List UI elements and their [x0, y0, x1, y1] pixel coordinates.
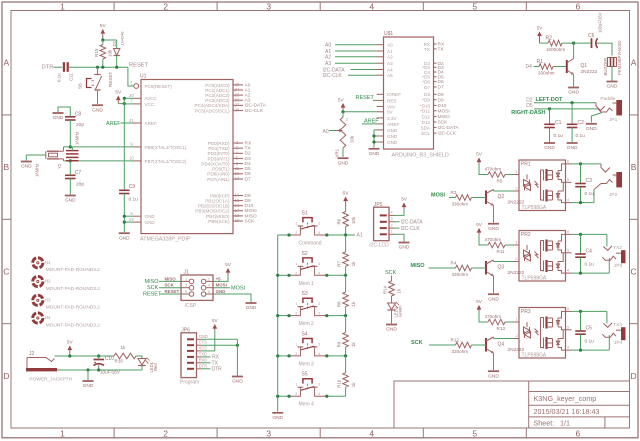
- svg-text:1: 1: [60, 428, 65, 438]
- supply 5V at JP5: [402, 203, 407, 208]
- ground at J1: [246, 302, 257, 304]
- ground below C7: [65, 195, 76, 197]
- svg-text:I2C-CLK: I2C-CLK: [245, 108, 264, 114]
- svg-text:R16: R16: [115, 359, 124, 364]
- ground below button rail: [272, 412, 283, 414]
- svg-text:330ohm: 330ohm: [452, 272, 469, 277]
- header JP5 I2C-LCD: [374, 207, 389, 241]
- svg-text:20: 20: [129, 93, 134, 98]
- svg-text:22: 22: [129, 217, 134, 222]
- wire LEFT-DOT to paddle tip: [534, 102, 596, 104]
- svg-text:D6: D6: [438, 79, 444, 85]
- svg-text:R9: R9: [337, 341, 342, 347]
- transistor Q1 2N2222: [566, 60, 568, 73]
- svg-text:1: 1: [295, 342, 297, 346]
- svg-text:H2: H2: [45, 279, 51, 284]
- IC U$1 ARDUINO_R3_SHIELD box: [384, 37, 434, 149]
- svg-text:6: 6: [567, 230, 569, 234]
- U1 right pins with net labels: [233, 84, 243, 86]
- svg-text:330ohm: 330ohm: [538, 71, 555, 76]
- svg-text:B: B: [3, 162, 9, 172]
- svg-text:JP2: JP2: [609, 192, 618, 198]
- buzzer PKM13EPYH4000: [608, 58, 617, 67]
- svg-text:RES: RES: [387, 98, 396, 103]
- wire U$1 GND pins to ground: [374, 129, 377, 131]
- svg-text:R5: R5: [497, 179, 503, 184]
- svg-text:0.1u: 0.1u: [585, 261, 595, 267]
- svg-text:MOUNT-PAD-ROUND3.2: MOUNT-PAD-ROUND3.2: [46, 286, 101, 292]
- svg-text:A5: A5: [387, 73, 393, 78]
- header JP6 Program: [181, 333, 197, 378]
- svg-text:C2: C2: [578, 120, 585, 126]
- svg-text:A: A: [631, 58, 637, 68]
- svg-text:0.1u: 0.1u: [585, 191, 595, 197]
- svg-text:D7: D7: [438, 85, 444, 91]
- svg-text:*D6: *D6: [422, 80, 430, 85]
- svg-text:GND: GND: [488, 226, 499, 232]
- capacitor C6 100uF/16V: [591, 38, 593, 48]
- svg-text:1: 1: [295, 262, 297, 266]
- svg-text:28: 28: [235, 108, 240, 113]
- svg-text:1: 1: [60, 1, 65, 11]
- svg-text:10: 10: [129, 156, 134, 161]
- ground below VR1: [338, 157, 349, 159]
- supply 5V to U$1 and VR1: [341, 103, 346, 108]
- svg-text:I2C-DATA: I2C-DATA: [245, 103, 267, 109]
- svg-text:SCK: SCK: [438, 120, 449, 126]
- svg-text:PB7(XTAL2/TOSC2): PB7(XTAL2/TOSC2): [145, 159, 187, 164]
- svg-text:TX: TX: [438, 47, 445, 53]
- svg-text:Mem 1: Mem 1: [299, 281, 315, 287]
- svg-text:3: 3: [390, 217, 392, 221]
- svg-text:I2C-DATA: I2C-DATA: [401, 220, 424, 226]
- svg-text:GND: GND: [399, 245, 410, 251]
- header J1 ICSP: [181, 275, 213, 300]
- svg-text:IOREF: IOREF: [387, 92, 401, 97]
- svg-text:GND: GND: [119, 235, 130, 241]
- svg-text:ATMEGA328P_PDIP: ATMEGA328P_PDIP: [140, 236, 191, 242]
- svg-text:RESET: RESET: [108, 71, 113, 87]
- svg-text:Sheet:: Sheet:: [534, 418, 555, 427]
- svg-text:GND: GND: [216, 289, 226, 294]
- svg-text:J2: J2: [29, 351, 35, 357]
- svg-text:4: 4: [369, 1, 374, 11]
- svg-text:10k: 10k: [108, 49, 113, 57]
- svg-text:AREF: AREF: [106, 121, 121, 127]
- svg-text:0.1u: 0.1u: [585, 338, 595, 344]
- wire R2 to C6 and Q1 collector: [562, 42, 591, 44]
- svg-text:GND: GND: [567, 145, 578, 151]
- svg-text:4: 4: [318, 352, 320, 356]
- svg-text:TX: TX: [245, 146, 252, 152]
- wire 5V rail to AVCC VCC pins: [124, 97, 133, 99]
- svg-text:20p: 20p: [76, 182, 84, 188]
- svg-text:TLP598GA: TLP598GA: [522, 353, 547, 359]
- svg-text:RESET: RESET: [143, 292, 162, 298]
- svg-text:Mem 4: Mem 4: [299, 402, 315, 408]
- wires U$1 analog inputs A0-A3: [335, 44, 377, 46]
- svg-text:4: 4: [567, 346, 569, 350]
- svg-text:A0: A0: [323, 129, 329, 135]
- svg-text:1k: 1k: [351, 341, 356, 346]
- svg-text:RESET: RESET: [356, 95, 375, 101]
- svg-text:GND: GND: [386, 327, 397, 333]
- svg-text:R3: R3: [451, 190, 457, 195]
- svg-text:5V: 5V: [212, 318, 219, 324]
- svg-text:2N2222: 2N2222: [581, 69, 598, 75]
- switch S6 (reset button): [97, 67, 99, 74]
- svg-text:0.1u: 0.1u: [129, 197, 139, 203]
- svg-text:D5: D5: [526, 103, 533, 109]
- wire S3 to rails: [278, 315, 289, 317]
- svg-text:D4: D4: [245, 161, 251, 167]
- svg-text:SDA: SDA: [421, 125, 431, 130]
- svg-text:1: 1: [295, 383, 297, 387]
- svg-text:VIN: VIN: [387, 104, 395, 109]
- svg-text:5: 5: [567, 325, 569, 329]
- svg-text:R14: R14: [383, 285, 388, 294]
- svg-text:2: 2: [208, 277, 210, 281]
- capacitor C5 0.1u: [580, 311, 582, 331]
- svg-text:Q4: Q4: [498, 342, 505, 348]
- svg-text:C4: C4: [586, 249, 593, 255]
- svg-text:PB6(XTAL1/TOSC1): PB6(XTAL1/TOSC1): [145, 145, 187, 150]
- ground left of Y2: [21, 161, 32, 163]
- svg-text:RXD: RXD: [199, 357, 208, 362]
- svg-text:JP3: JP3: [614, 263, 623, 269]
- wire S1 to rails: [278, 234, 289, 236]
- svg-text:1k: 1k: [351, 301, 356, 306]
- supply 5V at power jack: [68, 346, 73, 351]
- svg-text:R4: R4: [451, 261, 457, 266]
- resistor R16 1k: [114, 353, 136, 359]
- svg-text:A2: A2: [387, 55, 393, 60]
- svg-text:D7: D7: [245, 176, 251, 182]
- svg-text:1000ohm: 1000ohm: [546, 47, 565, 52]
- svg-text:I2C-CLK: I2C-CLK: [401, 226, 421, 232]
- svg-text:MISO: MISO: [245, 213, 258, 219]
- svg-text:0.1u: 0.1u: [576, 133, 586, 139]
- svg-text:C6: C6: [588, 33, 595, 39]
- svg-text:I2C-LCD: I2C-LCD: [369, 243, 389, 249]
- svg-text:2: 2: [390, 223, 392, 227]
- svg-text:470ohm: 470ohm: [485, 237, 502, 242]
- svg-text:A3: A3: [387, 61, 393, 66]
- svg-text:20p: 20p: [76, 122, 84, 128]
- svg-text:D: D: [631, 371, 637, 381]
- wire U$1 A5 to I2C-CLK: [348, 74, 377, 76]
- svg-text:S5: S5: [302, 372, 308, 378]
- svg-text:1k: 1k: [351, 382, 356, 387]
- svg-text:*D10: *D10: [420, 103, 431, 108]
- wire PR2 output top to TX jack: [572, 233, 607, 235]
- U$1 right pins with net labels: [434, 43, 437, 45]
- svg-text:GND: GND: [53, 115, 64, 121]
- supply 5V buzzer: [537, 32, 542, 37]
- svg-text:JP1: JP1: [609, 117, 618, 123]
- diode D1 1N4148: [116, 40, 118, 48]
- capacitor C9 0.1u: [119, 189, 130, 191]
- svg-text:2N2222: 2N2222: [508, 347, 525, 353]
- svg-text:SCK: SCK: [385, 270, 397, 276]
- svg-text:1N4148: 1N4148: [119, 31, 124, 46]
- svg-text:GND: GND: [21, 164, 32, 170]
- svg-text:A1: A1: [245, 87, 251, 93]
- svg-text:1k: 1k: [121, 345, 127, 350]
- svg-text:5V: 5V: [343, 191, 350, 197]
- svg-text:PR2: PR2: [521, 232, 531, 238]
- svg-text:GND: GND: [387, 128, 398, 133]
- svg-text:SCL: SCL: [421, 131, 430, 136]
- svg-text:JP6: JP6: [181, 328, 190, 334]
- supply 5V (reset pullup): [101, 29, 106, 34]
- svg-text:3: 3: [318, 342, 320, 346]
- svg-text:+5: +5: [216, 276, 222, 281]
- svg-text:MOSI: MOSI: [431, 192, 446, 198]
- svg-text:5V: 5V: [225, 262, 232, 268]
- svg-text:J1: J1: [184, 270, 190, 276]
- svg-text:S6: S6: [77, 83, 82, 89]
- svg-text:1: 1: [515, 241, 517, 245]
- mount pad H4: [33, 313, 43, 323]
- wire C11 to RESET node: [69, 66, 128, 68]
- svg-text:A2: A2: [325, 55, 331, 61]
- ground below buzzer: [607, 81, 618, 83]
- svg-text:A4: A4: [387, 67, 393, 72]
- svg-text:Y2: Y2: [57, 163, 62, 169]
- svg-text:Red: Red: [153, 363, 158, 371]
- svg-text:5V: 5V: [115, 90, 122, 96]
- svg-text:S2: S2: [302, 251, 308, 257]
- mount pad H2: [33, 276, 43, 286]
- svg-text:MOUNT-PAD-ROUND3.2: MOUNT-PAD-ROUND3.2: [46, 322, 101, 328]
- svg-text:2: 2: [515, 334, 517, 338]
- svg-text:PD7(AIN1): PD7(AIN1): [207, 177, 230, 182]
- svg-text:MOUNT-PAD-ROUND3.2: MOUNT-PAD-ROUND3.2: [46, 267, 101, 273]
- ground below S6: [92, 104, 103, 106]
- wire RIGHT-DASH to paddle ring: [534, 108, 598, 110]
- svg-text:GND: GND: [488, 296, 499, 302]
- svg-text:5V: 5V: [100, 23, 107, 29]
- wire Y2 case to ground: [26, 154, 46, 156]
- svg-text:2: 2: [515, 187, 517, 191]
- svg-text:5V: 5V: [476, 152, 483, 158]
- svg-text:TX: TX: [424, 47, 430, 52]
- svg-text:D6: D6: [245, 171, 251, 177]
- svg-text:2: 2: [163, 428, 168, 438]
- svg-text:3: 3: [318, 302, 320, 306]
- svg-text:C11: C11: [69, 73, 74, 81]
- svg-text:4: 4: [318, 271, 320, 275]
- svg-text:3: 3: [185, 284, 187, 288]
- svg-text:GND: GND: [232, 379, 243, 385]
- wire DTR to C11: [54, 66, 63, 68]
- svg-text:5: 5: [472, 428, 477, 438]
- wire 5V to R15/D1 tops: [103, 39, 117, 41]
- svg-text:AREF: AREF: [145, 121, 157, 126]
- resistor R8 1k: [345, 276, 347, 293]
- svg-text:5: 5: [472, 1, 477, 11]
- title block: [394, 381, 630, 428]
- svg-text:DTR: DTR: [199, 363, 207, 368]
- LED1 red: [136, 356, 142, 359]
- svg-text:VCC: VCC: [145, 102, 155, 107]
- svg-text:H1: H1: [45, 260, 51, 265]
- svg-text:21: 21: [129, 118, 134, 123]
- svg-text:DTR: DTR: [42, 64, 54, 70]
- ground below Q4: [488, 370, 499, 372]
- wire paddle sleeve to ground: [591, 113, 602, 123]
- resistor R5 470ohm: [479, 165, 488, 175]
- resistor R14 1k: [391, 276, 393, 282]
- svg-text:A0: A0: [325, 43, 331, 49]
- svg-text:13: 13: [235, 176, 240, 181]
- wire C6 to buzzer: [596, 43, 612, 55]
- VR1 wiper arrow and A0 wire: [329, 130, 336, 132]
- svg-text:PC5(ADC5/SCL): PC5(ADC5/SCL): [195, 108, 230, 113]
- svg-text:2: 2: [295, 271, 297, 275]
- svg-text:4: 4: [318, 392, 320, 396]
- svg-text:D2: D2: [245, 151, 251, 157]
- svg-text:2: 2: [515, 257, 517, 261]
- svg-text:A3: A3: [325, 61, 331, 67]
- svg-text:GND: GND: [387, 134, 398, 139]
- svg-text:D9: D9: [438, 97, 444, 103]
- svg-text:5V: 5V: [67, 340, 74, 346]
- svg-text:JP4: JP4: [614, 340, 623, 346]
- svg-text:U$1: U$1: [384, 31, 393, 37]
- svg-text:5V: 5V: [338, 97, 345, 103]
- svg-text:C9: C9: [129, 184, 136, 190]
- svg-text:RIGHT-DASH: RIGHT-DASH: [511, 110, 545, 116]
- wire JP6 VCC to 5V: [201, 350, 215, 352]
- svg-text:5: 5: [567, 178, 569, 182]
- svg-text:6: 6: [567, 307, 569, 311]
- svg-text:SCK: SCK: [165, 283, 175, 288]
- resistor R11 470ohm: [479, 235, 488, 245]
- svg-text:D1: D1: [112, 40, 117, 46]
- net label A1: [346, 234, 355, 236]
- svg-text:R11: R11: [497, 249, 506, 254]
- svg-text:1: 1: [295, 302, 297, 306]
- supply 5V (PR3): [477, 305, 482, 310]
- svg-text:PC6(RESET): PC6(RESET): [145, 84, 173, 89]
- wire PR2 output bottom: [572, 272, 610, 274]
- net label DTR at JP6: [201, 368, 211, 370]
- transistor Q2 2N2222: [485, 191, 487, 205]
- svg-text:MOSI: MOSI: [231, 285, 246, 291]
- svg-text:DTR: DTR: [212, 366, 223, 372]
- svg-text:1k: 1k: [351, 261, 356, 266]
- svg-text:A0: A0: [245, 82, 251, 88]
- svg-text:2015/03/21 16:18:43: 2015/03/21 16:18:43: [534, 407, 600, 416]
- U1 left pins: [133, 97, 141, 99]
- svg-text:5V: 5V: [476, 222, 483, 228]
- svg-text:16MHz: 16MHz: [35, 164, 40, 177]
- svg-text:Mem 3: Mem 3: [299, 361, 315, 367]
- resistor R6 10k: [345, 207, 347, 212]
- svg-text:1: 1: [390, 230, 392, 234]
- svg-text:H4: H4: [45, 315, 51, 320]
- resistor R10 1k: [345, 356, 347, 373]
- wire U$1 A4 to I2C-DATA: [351, 69, 377, 71]
- wire XTAL1 net: [64, 146, 134, 148]
- svg-text:BUZZER: BUZZER: [603, 58, 608, 76]
- svg-text:5: 5: [567, 248, 569, 252]
- svg-text:Program: Program: [180, 379, 199, 385]
- supply 5V at JP6: [213, 324, 218, 329]
- U$1 left pins: [377, 44, 384, 46]
- svg-text:GND: GND: [586, 126, 597, 132]
- svg-text:R6: R6: [337, 218, 342, 224]
- svg-text:A: A: [3, 58, 9, 68]
- svg-text:D8: D8: [438, 92, 444, 98]
- IC U1 ATMEGA328P box: [141, 80, 233, 234]
- svg-text:R12: R12: [451, 338, 460, 343]
- svg-text:SCK: SCK: [245, 218, 256, 224]
- svg-text:C: C: [631, 267, 637, 277]
- svg-text:K3NG_keyer_comp: K3NG_keyer_comp: [534, 394, 597, 403]
- svg-text:Mem 2: Mem 2: [299, 321, 315, 327]
- svg-text:1: 1: [295, 222, 297, 226]
- svg-text:D12: D12: [422, 115, 431, 120]
- svg-text:5V: 5V: [387, 110, 394, 115]
- frame column ticks: [113, 2, 115, 11]
- svg-text:GND: GND: [145, 214, 156, 219]
- svg-text:4: 4: [208, 284, 210, 288]
- svg-text:C10: C10: [105, 356, 114, 362]
- net label I2C-DATA at JP5: [395, 221, 400, 223]
- svg-text:D: D: [3, 371, 9, 381]
- svg-text:330ohm: 330ohm: [452, 202, 469, 207]
- ground below Q3: [488, 293, 499, 295]
- svg-text:5V: 5V: [537, 26, 544, 32]
- svg-text:6: 6: [567, 159, 569, 163]
- svg-text:R7: R7: [337, 261, 342, 267]
- svg-text:R10: R10: [337, 379, 342, 388]
- svg-text:4: 4: [567, 269, 569, 273]
- svg-text:POWER_JACKPTH: POWER_JACKPTH: [29, 377, 72, 383]
- resistor R13 470ohm: [479, 312, 488, 322]
- svg-text:MISO: MISO: [145, 279, 160, 285]
- svg-text:PR1: PR1: [521, 162, 531, 168]
- resonator Y1 16MHz: [66, 150, 79, 152]
- svg-text:RESET: RESET: [165, 289, 180, 294]
- svg-text:2: 2: [295, 392, 297, 396]
- svg-text:I2C-DATA: I2C-DATA: [438, 125, 460, 131]
- crystal Y2 16MHz: [63, 147, 65, 151]
- svg-text:LEFT-DOT: LEFT-DOT: [536, 97, 564, 103]
- svg-text:VCC: VCC: [199, 345, 208, 350]
- svg-text:5: 5: [185, 290, 187, 294]
- svg-text:C7: C7: [75, 170, 82, 176]
- ground below Q2: [488, 223, 499, 225]
- svg-text:1: 1: [185, 277, 187, 281]
- svg-text:5V: 5V: [401, 197, 408, 203]
- svg-text:I2C-CLK: I2C-CLK: [438, 131, 457, 137]
- svg-text:MISO: MISO: [411, 263, 426, 269]
- svg-text:GND: GND: [338, 160, 349, 166]
- svg-text:4: 4: [318, 231, 320, 235]
- svg-text:D5: D5: [245, 166, 251, 172]
- svg-text:470ohm: 470ohm: [485, 166, 502, 171]
- svg-text:D9: D9: [245, 198, 251, 204]
- svg-text:GND: GND: [272, 415, 283, 421]
- capacitor C10 10uF/16V: [94, 359, 105, 361]
- svg-text:GND: GND: [92, 107, 103, 113]
- svg-text:D10: D10: [245, 203, 254, 209]
- svg-text:B: B: [631, 162, 637, 172]
